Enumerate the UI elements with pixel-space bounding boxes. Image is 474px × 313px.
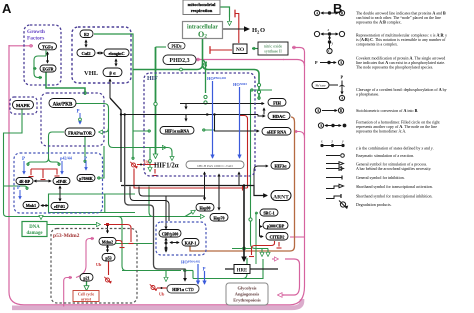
svg-text:CITED2: CITED2 bbox=[270, 234, 285, 239]
small symbols bbox=[17, 76, 247, 297]
svg-text:A: A bbox=[340, 61, 343, 65]
svg-text:P: P bbox=[315, 60, 318, 65]
oval CITED2 bbox=[266, 233, 288, 241]
wire HRE DNA bbox=[225, 268, 278, 270]
svg-text:P: P bbox=[17, 186, 20, 191]
wire HIF degradation route bbox=[125, 115, 185, 279]
red 4E-BP cluster bbox=[31, 169, 57, 175]
box intracellular O2 bbox=[183, 22, 223, 39]
wire long right vertical bbox=[251, 90, 269, 249]
wire EGFR loop bbox=[45, 51, 47, 57]
oval p21 bbox=[80, 274, 93, 282]
oval Hsp70 bbox=[210, 214, 228, 222]
box NO bbox=[233, 44, 247, 54]
oval Hsp90 bbox=[196, 204, 214, 212]
blue bottom hydroxyl bbox=[197, 264, 199, 281]
box DNA damage bbox=[22, 222, 47, 237]
wire Cul2-elonginC bbox=[97, 52, 103, 54]
wire aHIF RNA bbox=[215, 115, 260, 132]
svg-text:FRAP/mTOR: FRAP/mTOR bbox=[68, 130, 92, 135]
svg-text:Factors: Factors bbox=[27, 36, 44, 42]
red p53 degradation bbox=[108, 261, 110, 275]
arrows to Hsp bbox=[204, 196, 206, 200]
legend row 1 symbol bbox=[314, 10, 344, 15]
wire mito O2 consumption bbox=[220, 7, 230, 17]
svg-text:Enzymatic stimulation of a rea: Enzymatic stimulation of a reaction. bbox=[356, 153, 414, 158]
pink Mdm2 feed bbox=[76, 239, 94, 278]
svg-text:respiration: respiration bbox=[191, 8, 213, 13]
wire mRNA node arrows bbox=[185, 104, 187, 110]
svg-text:p21: p21 bbox=[83, 275, 89, 280]
salmon line KAP-1 to HDAC bbox=[190, 117, 295, 251]
svg-text:DNA: DNA bbox=[29, 225, 40, 230]
legend row 8 symbol bbox=[326, 154, 344, 158]
svg-text:TGFα: TGFα bbox=[42, 44, 54, 49]
wire VHL main line bbox=[110, 98, 121, 182]
svg-text:synthase II: synthase II bbox=[264, 49, 282, 54]
legend row 7 symbol bbox=[321, 144, 344, 146]
red NO to PHD stem bbox=[210, 49, 232, 51]
box HRE bbox=[234, 265, 250, 274]
box cell cycle arrest bbox=[73, 291, 99, 302]
svg-text:KAP-1: KAP-1 bbox=[185, 240, 197, 245]
oval Cul2 bbox=[77, 49, 95, 57]
svg-text:HIF1α CTD: HIF1α CTD bbox=[172, 287, 194, 292]
wire Akt to translation bbox=[28, 146, 49, 164]
svg-text:p42/44: p42/44 bbox=[60, 156, 73, 161]
wire translation branch bbox=[171, 157, 173, 160]
svg-text:VHL: VHL bbox=[84, 70, 99, 77]
box KAP1 bbox=[156, 222, 206, 255]
svg-text:Mdm2: Mdm2 bbox=[102, 239, 113, 244]
box glycolysis bbox=[226, 283, 268, 305]
red transcription inhibition small bbox=[278, 242, 280, 247]
pink line to PHD2,3 bbox=[196, 59, 284, 61]
svg-text:a phosphatase.: a phosphatase. bbox=[356, 92, 379, 97]
svg-text:ARNT: ARNT bbox=[273, 194, 289, 200]
svg-text:z: z bbox=[331, 140, 334, 144]
svg-text:The node represents the phosph: The node represents the phosphorylated s… bbox=[356, 65, 433, 70]
wire O2 stem left branch to HIF bbox=[133, 64, 203, 70]
svg-text:Erythropoiesis: Erythropoiesis bbox=[233, 298, 261, 303]
wire E2 output bbox=[94, 34, 133, 156]
svg-text:Cul2: Cul2 bbox=[81, 51, 90, 56]
dashed boxes bbox=[10, 25, 255, 303]
wire TGFa-EGFR binding bbox=[47, 52, 49, 63]
red Ub T down bbox=[154, 169, 156, 174]
red inhibition to transcription factor bbox=[134, 169, 248, 189]
svg-text:E2: E2 bbox=[84, 32, 89, 37]
svg-text:HON803: HON803 bbox=[233, 82, 247, 87]
wire eIF4E cluster bbox=[34, 180, 51, 182]
node boxes and ovals bbox=[13, 0, 292, 305]
oval FRAPmTOR bbox=[65, 128, 95, 137]
box domains bbox=[186, 161, 244, 169]
svg-text:p53-Mdm2: p53-Mdm2 bbox=[53, 233, 80, 239]
legend row 9 symbols bbox=[326, 162, 344, 171]
wire p70S6K side bbox=[97, 146, 104, 178]
svg-text:Ph’tase: Ph’tase bbox=[316, 84, 326, 88]
svg-text:FIH: FIH bbox=[273, 100, 281, 105]
box Akt/PKB bbox=[41, 93, 104, 146]
wire p21 to arrest bbox=[86, 280, 88, 287]
wire into VHL from below bbox=[109, 79, 111, 98]
svg-text:MAPK: MAPK bbox=[16, 103, 30, 108]
legend row 3 symbol bbox=[320, 60, 344, 65]
box translation bbox=[14, 153, 103, 213]
pink HRE output arrow bbox=[272, 258, 278, 260]
svg-text:EGFR: EGFR bbox=[42, 66, 53, 71]
svg-text:P: P bbox=[84, 157, 87, 162]
svg-text:P: P bbox=[77, 110, 80, 115]
blue P arrows translation row bbox=[23, 161, 25, 174]
oval HIF1a mRNA bbox=[160, 127, 194, 135]
svg-text:HIF1/2α: HIF1/2α bbox=[154, 163, 179, 170]
svg-text:HOP564,402: HOP564,402 bbox=[181, 259, 201, 264]
svg-text:HOP564,402: HOP564,402 bbox=[207, 76, 227, 81]
oval PHD2,3 bbox=[163, 55, 196, 65]
svg-text:z is the combination of state: z is the combination of states defined b… bbox=[355, 146, 434, 151]
blue N803 hydroxylation bbox=[239, 87, 241, 154]
wire KAP1 complex bbox=[139, 187, 205, 197]
svg-text:Akt/PKB: Akt/PKB bbox=[53, 102, 73, 107]
svg-text:arrest: arrest bbox=[81, 296, 92, 301]
svg-text:Hsp90: Hsp90 bbox=[200, 205, 211, 210]
wire E2-Cul2 bbox=[85, 40, 87, 47]
svg-text:PHDs: PHDs bbox=[171, 44, 181, 49]
red CITED2 inhibition bbox=[252, 241, 275, 255]
red FIH line inhibition bbox=[239, 116, 248, 189]
svg-text:p300/CBP: p300/CBP bbox=[267, 223, 285, 228]
wire PHD2,3 stub bbox=[180, 68, 183, 71]
svg-text:mitochondrial: mitochondrial bbox=[188, 2, 217, 7]
pink arrow into Glycolysis box bbox=[278, 294, 284, 296]
svg-text:y: y bbox=[341, 140, 344, 144]
oval HIF1a bottom bbox=[167, 285, 199, 294]
svg-text:represents the homodimer A:A.: represents the homodimer A:A. bbox=[356, 129, 406, 134]
oval eIF4G bbox=[51, 203, 68, 210]
legend row 2 symbol bbox=[314, 31, 344, 53]
svg-text:SRC-1: SRC-1 bbox=[263, 210, 274, 215]
oval VHL beta alpha bbox=[103, 68, 122, 77]
svg-text:y: y bbox=[331, 42, 334, 46]
svg-text:PHD2,3: PHD2,3 bbox=[169, 58, 189, 64]
pink bus: left/bottom band bbox=[9, 45, 290, 305]
svg-text:A bar behind the arrowhead sig: A bar behind the arrowhead signifies nec… bbox=[356, 166, 431, 171]
blue P564 hydroxylation bbox=[212, 81, 214, 154]
box p53-Mdm2 bbox=[51, 229, 137, 304]
svg-text:HDAC: HDAC bbox=[273, 114, 286, 119]
wire Mnk1 P bbox=[4, 186, 28, 190]
box mitochondrial respiration bbox=[183, 0, 220, 15]
oval p53 bbox=[102, 254, 115, 262]
svg-text:4E-BP: 4E-BP bbox=[19, 179, 31, 184]
svg-text:Angiogenesis: Angiogenesis bbox=[235, 292, 260, 297]
wire mRNA right feed bbox=[202, 117, 215, 130]
box HIF bbox=[144, 73, 255, 176]
oval Mnk1 bbox=[23, 202, 39, 209]
wire coactivator column bbox=[260, 219, 263, 227]
legend row 5 symbol bbox=[315, 108, 343, 113]
wire transcription complex bbox=[121, 186, 267, 196]
svg-text:x: x bbox=[320, 140, 323, 144]
wire elonginC-VHL bbox=[115, 59, 117, 66]
box MAPK bbox=[10, 97, 37, 114]
svg-text:HRE: HRE bbox=[237, 268, 247, 273]
wire EGFR to Akt bbox=[46, 73, 85, 93]
svg-text:HIF3α: HIF3α bbox=[275, 163, 288, 168]
wire main TF to HRE bbox=[243, 186, 245, 260]
oval HDAC bbox=[268, 112, 290, 120]
box nitric oxide synthase II bbox=[258, 42, 288, 55]
oval PHDs bbox=[168, 43, 185, 50]
svg-text:A: A bbox=[341, 97, 344, 101]
svg-text:C: C bbox=[328, 50, 331, 54]
svg-text:Glycolysis: Glycolysis bbox=[237, 286, 256, 291]
oval AktPKB bbox=[49, 99, 76, 108]
svg-text:A: A bbox=[316, 12, 319, 16]
oval p70S6K bbox=[77, 175, 95, 182]
pink line from CITED2 bbox=[290, 236, 304, 238]
svg-text:p70S6K: p70S6K bbox=[79, 176, 93, 181]
svg-text:Stoichiometric conversion of A: Stoichiometric conversion of A into B. bbox=[356, 108, 418, 113]
svg-text:CBP/p300: CBP/p300 bbox=[162, 232, 179, 236]
box Growth Factors bbox=[24, 25, 61, 85]
svg-text:Ub: Ub bbox=[159, 292, 165, 297]
oval FIH bbox=[268, 99, 286, 107]
legend row 4 symbol bbox=[312, 81, 345, 101]
svg-text:Ub: Ub bbox=[96, 262, 102, 267]
red HIF1a degradation line bbox=[137, 164, 156, 166]
oval KAP-1 bbox=[182, 239, 199, 247]
legend row 11 symbol bbox=[326, 184, 344, 188]
svg-text:components in a complex.: components in a complex. bbox=[356, 42, 398, 47]
pink line to TGFa bbox=[9, 45, 33, 47]
oval HIF3a bbox=[271, 162, 290, 170]
legend row 10 symbol bbox=[326, 176, 342, 180]
wire MAPK down bbox=[4, 110, 23, 217]
oval SRC-1 bbox=[260, 209, 278, 216]
oval Mdm2 bbox=[99, 238, 116, 246]
box VHL bbox=[72, 27, 131, 83]
svg-text:A: A bbox=[320, 124, 323, 128]
pink line to aHIF RNA bbox=[294, 132, 305, 139]
svg-text:O: O bbox=[260, 27, 265, 34]
svg-text:P: P bbox=[341, 75, 344, 80]
wire into Mdm2 bbox=[107, 225, 109, 233]
oval p300CBP bbox=[263, 222, 288, 230]
wire Mdm2 right bbox=[116, 243, 153, 245]
svg-text:x: x bbox=[327, 28, 330, 32]
svg-text:P: P bbox=[203, 268, 206, 273]
legend row 13 symbol degradation bbox=[339, 201, 348, 209]
wire O2 to H2O bbox=[222, 28, 244, 30]
svg-text:β α: β α bbox=[109, 71, 116, 76]
oval TGFa bbox=[39, 43, 57, 50]
oval aHIF RNA bbox=[262, 128, 291, 136]
svg-text:aHIF RNA: aHIF RNA bbox=[267, 129, 287, 134]
svg-text:HIF: HIF bbox=[147, 76, 158, 82]
wire FRAP to p70S6K bbox=[84, 137, 86, 160]
svg-text:Hsp70: Hsp70 bbox=[214, 215, 225, 220]
wire O2 main stem bbox=[203, 38, 260, 97]
red Mdm2 inhibition bbox=[116, 241, 122, 247]
red pacman degradation symbols bbox=[104, 162, 156, 291]
oval eIF4E bbox=[53, 178, 70, 185]
svg-text:HIF1α mRNA: HIF1α mRNA bbox=[165, 128, 189, 133]
svg-text:A: A bbox=[2, 1, 12, 16]
wire under HRE bbox=[243, 258, 247, 279]
box ARNT bbox=[271, 191, 291, 201]
red bottom HIF1a ub bbox=[157, 287, 167, 289]
svg-text:damage: damage bbox=[27, 231, 43, 236]
legend row 12 symbol bbox=[326, 194, 341, 199]
wire DNA damage out bbox=[47, 224, 100, 226]
pink bus: right vertical main bbox=[290, 48, 305, 305]
red DNA relay bbox=[104, 225, 131, 243]
svg-text:Shorthand symbol for transcrip: Shorthand symbol for transcriptional inh… bbox=[356, 194, 433, 199]
wire NOSII to NO bbox=[252, 48, 258, 50]
svg-text:Shorthand symbol for transcrip: Shorthand symbol for transcriptional act… bbox=[356, 184, 433, 189]
svg-text:Degradation products.: Degradation products. bbox=[356, 202, 392, 207]
svg-text:A: A bbox=[317, 109, 320, 113]
svg-text:elonginC: elonginC bbox=[108, 51, 124, 56]
oval CBPp300 kap bbox=[159, 230, 181, 238]
wire Mdm2-p53 bbox=[107, 245, 109, 252]
oval EGFR bbox=[40, 65, 56, 72]
green box around eIF4G bbox=[49, 194, 136, 213]
svg-text:represents the A:B complex.: represents the A:B complex. bbox=[356, 20, 402, 25]
svg-text:bHLH PAS ODD C-TAD: bHLH PAS ODD C-TAD bbox=[197, 164, 233, 168]
wire into HIF1a mRNA bbox=[133, 130, 151, 132]
pink line to NOS II bbox=[292, 47, 296, 49]
svg-text:P: P bbox=[22, 157, 25, 162]
svg-text:NO: NO bbox=[236, 47, 245, 53]
svg-text:p53: p53 bbox=[105, 255, 111, 260]
legend row 6 symbol bbox=[318, 123, 346, 128]
oval E2 bbox=[80, 30, 93, 38]
svg-text:eIF4E: eIF4E bbox=[56, 179, 67, 184]
svg-text:eIF4G: eIF4G bbox=[54, 204, 65, 209]
pink p21 feed bbox=[64, 278, 72, 307]
wire HIF1a synthesis bottom bbox=[183, 270, 193, 272]
svg-text:Mnk1: Mnk1 bbox=[26, 203, 36, 208]
blue P arrow FRAP bbox=[79, 113, 81, 124]
oval elonginC bbox=[104, 49, 129, 57]
oval 4E-BP bbox=[16, 178, 33, 185]
svg-text:Growth: Growth bbox=[27, 29, 45, 35]
wire Akt internals bbox=[76, 104, 172, 158]
svg-text:Ub: Ub bbox=[144, 160, 150, 165]
red NO inhibits respiration bbox=[235, 14, 239, 44]
oval MAPK bbox=[13, 101, 34, 110]
svg-text:General symbol for inhibition.: General symbol for inhibition. bbox=[356, 175, 405, 180]
